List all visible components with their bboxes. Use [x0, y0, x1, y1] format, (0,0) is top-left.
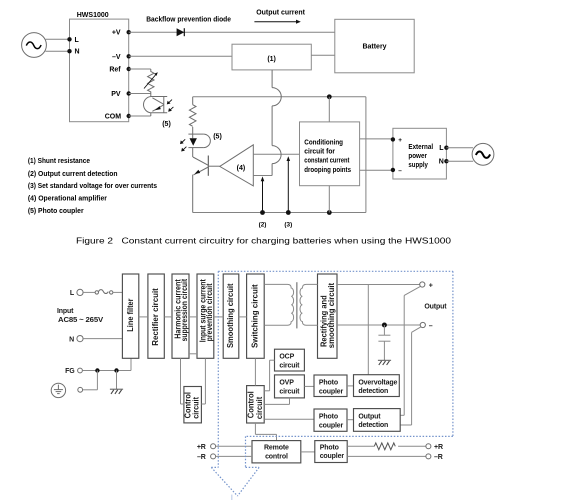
svg-text:(3): (3) — [284, 222, 292, 229]
svg-text:smoothing circuit: smoothing circuit — [327, 283, 336, 349]
svg-text:Input: Input — [57, 308, 74, 315]
svg-text:circuit: circuit — [255, 396, 264, 419]
svg-text:FG: FG — [65, 368, 75, 375]
svg-text:coupler: coupler — [320, 453, 345, 460]
svg-text:Conditioning: Conditioning — [304, 139, 343, 146]
svg-text:–R: –R — [434, 454, 443, 461]
svg-text:suppression circuit: suppression circuit — [180, 278, 189, 341]
svg-text:Line filter: Line filter — [126, 299, 135, 332]
svg-text:drooping points: drooping points — [304, 167, 351, 174]
svg-text:(5) Photo coupler: (5) Photo coupler — [28, 208, 84, 215]
svg-text:(5): (5) — [162, 121, 171, 128]
svg-text:detection: detection — [358, 388, 388, 395]
svg-text:Ref: Ref — [109, 67, 121, 74]
svg-text:Rectifier circuit: Rectifier circuit — [151, 288, 160, 346]
svg-text:–: – — [398, 167, 402, 174]
svg-text:(5): (5) — [213, 134, 222, 141]
svg-text:power: power — [408, 153, 427, 160]
svg-text:N: N — [439, 159, 444, 166]
svg-text:circuit: circuit — [279, 363, 300, 370]
svg-text:coupler: coupler — [319, 388, 344, 395]
svg-text:prevention circuit: prevention circuit — [205, 283, 214, 341]
svg-text:Switching circuit: Switching circuit — [251, 284, 260, 348]
svg-text:circuit: circuit — [279, 388, 300, 395]
svg-text:Output: Output — [358, 413, 381, 420]
svg-text:Photo: Photo — [320, 444, 339, 451]
svg-text:Photo: Photo — [319, 414, 338, 421]
svg-text:supply: supply — [408, 162, 428, 169]
svg-text:HWS1000: HWS1000 — [77, 12, 109, 19]
svg-text:N: N — [69, 336, 74, 343]
svg-text:(4) Operational amplifier: (4) Operational amplifier — [28, 195, 107, 202]
svg-text:+V: +V — [112, 30, 121, 37]
svg-text:L: L — [75, 37, 80, 44]
svg-text:circuit for: circuit for — [304, 148, 335, 155]
svg-text:Backflow prevention diode: Backflow prevention diode — [146, 17, 231, 24]
svg-text:(1): (1) — [267, 56, 276, 63]
svg-text:OVP: OVP — [279, 380, 294, 387]
svg-text:detection: detection — [358, 422, 388, 429]
svg-text:(4): (4) — [237, 165, 246, 172]
svg-text:L: L — [439, 145, 444, 152]
svg-text:+R: +R — [434, 444, 443, 451]
svg-text:+: + — [398, 137, 402, 144]
svg-text:Output current: Output current — [256, 10, 305, 17]
svg-text:Photo: Photo — [319, 380, 338, 387]
svg-text:constant current: constant current — [304, 158, 350, 165]
svg-text:–V: –V — [112, 54, 121, 61]
svg-text:+: + — [429, 282, 433, 289]
svg-text:Figure 2 Constant current ci: Figure 2 Constant current circuitry for … — [76, 236, 451, 246]
svg-text:Smoothing circuit: Smoothing circuit — [226, 283, 235, 348]
svg-text:External: External — [408, 144, 433, 151]
svg-text:circuit: circuit — [192, 397, 201, 419]
svg-text:OCP: OCP — [279, 354, 294, 361]
svg-text:Overvoltage: Overvoltage — [358, 379, 397, 386]
svg-text:–R: –R — [197, 454, 206, 461]
svg-text:(1) Shunt resistance: (1) Shunt resistance — [28, 158, 90, 165]
svg-text:N: N — [75, 49, 80, 56]
svg-text:COM: COM — [105, 114, 122, 121]
svg-text:coupler: coupler — [319, 422, 344, 429]
svg-text:+R: +R — [197, 444, 206, 451]
svg-text:Output: Output — [424, 303, 447, 310]
svg-text:control: control — [265, 453, 288, 460]
svg-text:(3) Set standard voltage for o: (3) Set standard voltage for over curren… — [28, 183, 157, 190]
svg-text:PV: PV — [111, 91, 121, 98]
svg-text:Battery: Battery — [362, 44, 386, 51]
svg-text:AC85 ~ 265V: AC85 ~ 265V — [58, 317, 104, 324]
svg-text:(2) Output current detection: (2) Output current detection — [28, 171, 118, 178]
svg-text:Remote: Remote — [264, 445, 289, 452]
svg-text:(2): (2) — [259, 222, 267, 229]
svg-text:–: – — [429, 323, 433, 330]
